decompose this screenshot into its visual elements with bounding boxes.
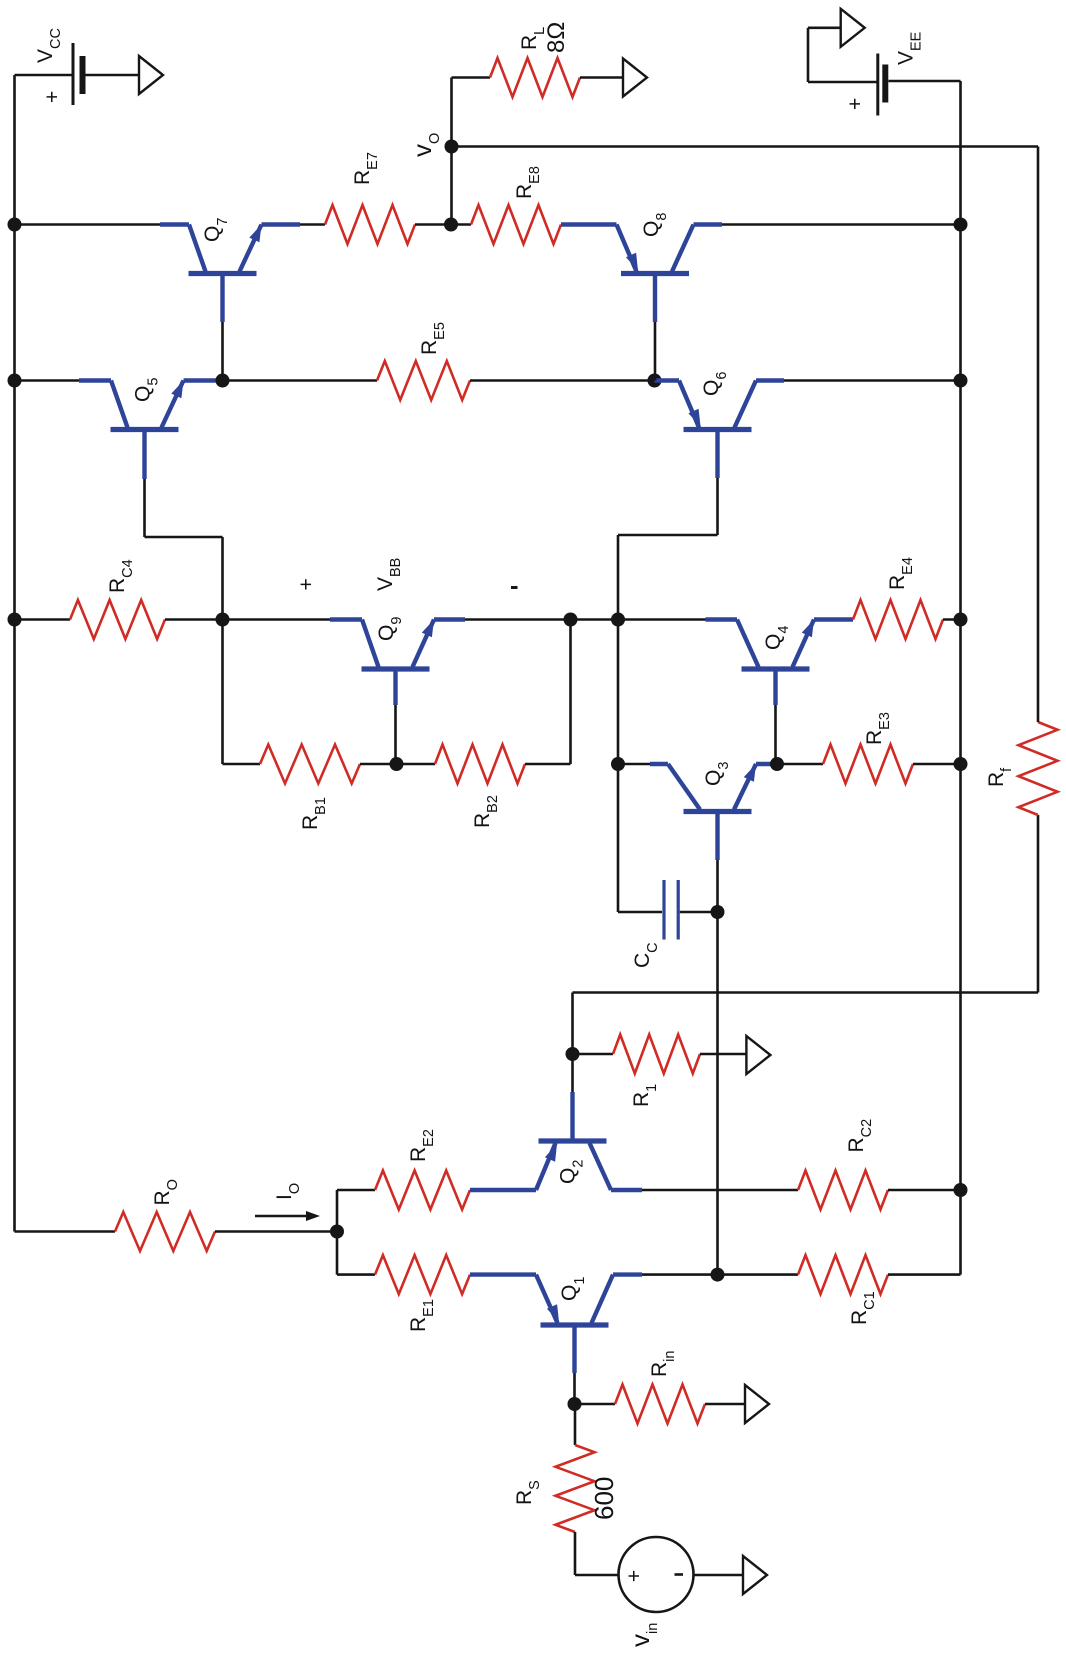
svg-text:+: + (844, 98, 867, 110)
svg-text:+: + (623, 1570, 646, 1582)
svg-text:+: + (41, 91, 64, 103)
svg-text:+: + (295, 578, 318, 590)
svg-text:600: 600 (589, 1477, 619, 1520)
svg-text:8Ω: 8Ω (543, 22, 570, 53)
